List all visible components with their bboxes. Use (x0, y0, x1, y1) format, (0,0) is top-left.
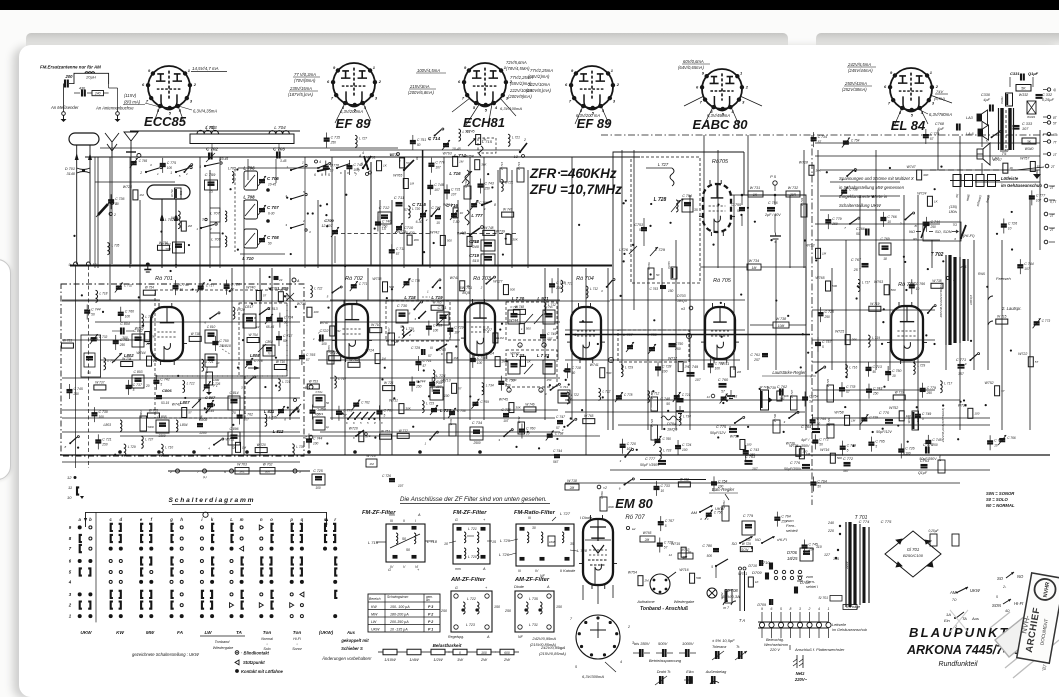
svg-text:6: 6 (884, 84, 887, 89)
svg-text:C 771: C 771 (359, 282, 368, 286)
svg-text:C 779: C 779 (930, 132, 939, 136)
svg-text:3: 3 (309, 230, 311, 234)
svg-text:C 777: C 777 (645, 457, 656, 461)
svg-text:250: 250 (546, 378, 552, 382)
svg-text:8I: 8I (914, 224, 917, 228)
svg-text:1M: 1M (851, 418, 856, 422)
svg-text:Rö 705: Rö 705 (713, 278, 732, 284)
svg-text:30R: 30R (790, 193, 797, 197)
svg-text:W 737: W 737 (95, 380, 104, 384)
svg-text:2200: 2200 (198, 431, 206, 435)
svg-text:L 737: L 737 (145, 437, 153, 441)
wire avc rail y301 (62, 300, 610, 302)
svg-text:C 760: C 760 (125, 310, 134, 314)
svg-text:6: 6 (314, 173, 316, 177)
svg-text:C 751: C 751 (417, 138, 426, 142)
svg-text:C 773: C 773 (343, 409, 352, 413)
svg-text:C 717: C 717 (283, 334, 293, 338)
resistor W765 (640, 536, 655, 542)
svg-text:180-200 µA: 180-200 µA (390, 613, 409, 617)
svg-text:500: 500 (501, 175, 506, 179)
svg-text:500: 500 (473, 239, 478, 243)
svg-text:C 721: C 721 (102, 437, 111, 441)
svg-text:7O: 7O (952, 223, 957, 227)
svg-text:W763: W763 (874, 280, 883, 284)
svg-text:100: 100 (662, 369, 668, 373)
switch group right SO-NO-1 (997, 572, 1024, 589)
svg-text:50: 50 (115, 202, 119, 206)
svg-text:Schwingstrom: Schwingstrom (387, 595, 408, 599)
svg-text:C 734: C 734 (472, 421, 482, 425)
svg-text:L 737: L 737 (623, 333, 633, 337)
IF can box L720 L721 (506, 302, 557, 340)
legend Blindkontakt (235, 651, 239, 655)
svg-text:W742: W742 (430, 230, 439, 234)
svg-text:W 719: W 719 (517, 162, 521, 171)
svg-text:6: 6 (69, 559, 72, 564)
svg-text:W715: W715 (297, 302, 306, 306)
svg-text:W725: W725 (835, 330, 844, 334)
svg-text:72V/5,6mA: 72V/5,6mA (506, 60, 527, 65)
svg-text:2: 2 (569, 397, 572, 401)
svg-text:2M: 2M (569, 486, 575, 490)
svg-text:Kontakt mit Lötfahne: Kontakt mit Lötfahne (241, 669, 284, 674)
switch row 6K55P8 (347, 418, 349, 420)
svg-text:3: 3 (613, 98, 616, 103)
generic component clusters (61, 128, 1050, 587)
svg-text:II Katode: II Katode (560, 569, 575, 573)
res W737 (791, 396, 798, 410)
svg-text:100: 100 (974, 411, 979, 415)
svg-text:1M: 1M (453, 356, 458, 360)
svg-text:2: 2 (193, 82, 197, 87)
if switch mid (418, 317, 420, 319)
svg-text:1: 1 (157, 172, 159, 176)
svg-text:C 780: C 780 (702, 544, 712, 548)
svg-text:5: 5 (575, 665, 577, 669)
Betriebsspannung caps (633, 641, 696, 663)
svg-text:3: 3 (799, 607, 801, 611)
svg-text:D703: D703 (677, 294, 686, 298)
svg-text:Wiedergabe: Wiedergabe (674, 600, 694, 604)
svg-text:107: 107 (436, 385, 442, 389)
switch row right (290, 169, 292, 171)
svg-text:W 734: W 734 (122, 357, 131, 361)
svg-text:100: 100 (715, 366, 721, 370)
svg-text:0: 0 (459, 651, 461, 655)
svg-text:(200V/8,)mA): (200V/8,)mA) (526, 88, 552, 93)
svg-text:W713: W713 (441, 378, 450, 382)
svg-text:C 745: C 745 (809, 543, 818, 547)
svg-text:C 731: C 731 (451, 187, 460, 191)
svg-text:SO, SON: SO, SON (935, 229, 952, 234)
svg-text:1: 1 (196, 227, 198, 231)
svg-text:600: 600 (504, 651, 510, 655)
svg-text:30K: 30K (852, 338, 858, 342)
osc W719 (517, 168, 524, 182)
svg-text:127: 127 (824, 553, 831, 557)
svg-text:+: + (483, 518, 486, 522)
top black bar (0, 0, 1059, 10)
svg-text:L 726: L 726 (499, 552, 510, 557)
svg-text:W713: W713 (805, 243, 814, 247)
svg-text:4: 4 (362, 151, 364, 155)
svg-text:W715: W715 (135, 327, 144, 331)
wire long bus y268 (70, 265, 612, 267)
svg-text:8: 8 (353, 436, 355, 440)
svg-text:107: 107 (1024, 267, 1030, 271)
svg-text:30K: 30K (414, 238, 420, 242)
svg-text:Ton: Ton (263, 630, 272, 635)
svg-text:500: 500 (707, 554, 713, 558)
svg-text:C 740: C 740 (382, 219, 391, 223)
svg-text:250: 250 (780, 520, 787, 524)
svg-text:C 736: C 736 (115, 197, 124, 201)
svg-text:L 708: L 708 (243, 195, 255, 200)
resistor W725 (671, 267, 677, 279)
svg-text:57: 57 (263, 293, 267, 297)
D701 feeder (161, 199, 163, 220)
svg-text:W721: W721 (449, 418, 453, 425)
svg-text:(64V/0,65mA): (64V/0,65mA) (678, 65, 704, 70)
svg-text:C 732: C 732 (124, 284, 133, 288)
svg-text:500: 500 (891, 288, 896, 292)
svg-text:C 770: C 770 (879, 411, 890, 415)
svg-text:W765: W765 (393, 174, 402, 178)
svg-text:6,3V/200mA: 6,3V/200mA (340, 109, 363, 114)
svg-text:b: b (89, 517, 92, 522)
svg-text:o: o (398, 335, 400, 339)
svg-text:Schieber S: Schieber S (341, 646, 363, 651)
svg-text:C 766: C 766 (916, 282, 925, 286)
res W707 2K (388, 333, 395, 345)
svg-text:C 774: C 774 (859, 519, 870, 524)
res W710 boxed (366, 459, 377, 467)
svg-text:r: r (334, 517, 336, 522)
svg-text:W 754: W 754 (145, 286, 154, 290)
res W745 (827, 385, 834, 402)
svg-text:C 762: C 762 (244, 413, 253, 417)
svg-text:107: 107 (434, 188, 440, 192)
svg-text:5: 5 (847, 449, 849, 453)
tube EF89(2) socket view (565, 66, 620, 115)
svg-text:C 744: C 744 (553, 449, 562, 453)
svg-text:sehtei l: sehtei l (806, 585, 818, 589)
svg-text:W 719: W 719 (895, 390, 904, 394)
svg-text:250: 250 (381, 224, 388, 228)
svg-text:IV: IV (535, 569, 539, 573)
svg-text:2500: 2500 (472, 441, 480, 445)
svg-text:LW: LW (204, 630, 212, 635)
FM-Ratio-Filter box (514, 510, 574, 566)
svg-text:220: 220 (827, 529, 834, 533)
svg-text:1: 1 (740, 70, 743, 75)
svg-text:250: 250 (749, 453, 756, 457)
svg-text:C 708: C 708 (267, 235, 279, 240)
if switch o21 (403, 335, 405, 337)
svg-text:L 716: L 716 (849, 366, 857, 370)
caps on tube pin7 (205, 330, 217, 343)
svg-text:C 718: C 718 (254, 359, 263, 363)
svg-text:L 731: L 731 (529, 623, 538, 627)
svg-text:6: 6 (696, 84, 699, 89)
switch HI-FI mid (761, 542, 763, 544)
svg-text:2W: 2W (480, 657, 488, 662)
svg-text:Normal: Normal (261, 637, 273, 641)
discriminator ground (770, 235, 781, 237)
svg-text:(8/3 mA): (8/3 mA) (124, 100, 141, 105)
FM-ZF-Filter 2 innards (444, 518, 496, 571)
svg-text:2M: 2M (736, 370, 742, 374)
svg-text:C 765: C 765 (139, 159, 148, 163)
svg-text:5: 5 (133, 388, 135, 392)
resistor W761 (722, 506, 729, 521)
svg-text:C731: C731 (437, 306, 446, 310)
svg-text:250: 250 (101, 442, 108, 446)
terminal 6 (230, 469, 234, 473)
svg-text:57: 57 (404, 208, 408, 212)
svg-text:4: 4 (818, 607, 820, 611)
svg-text:q: q (301, 517, 304, 522)
svg-text:L 719: L 719 (368, 540, 379, 545)
svg-text:C 724: C 724 (682, 443, 691, 447)
antenna UKW symbol (124, 132, 138, 156)
svg-text:1: 1 (188, 68, 191, 73)
svg-text:1T: 1T (1053, 153, 1058, 157)
svg-text:C 711: C 711 (394, 195, 404, 200)
diode D706 (800, 548, 813, 561)
svg-text:5: 5 (327, 295, 329, 299)
svg-text:C 750: C 750 (219, 339, 228, 343)
svg-text:Rundfunkteil: Rundfunkteil (939, 661, 978, 668)
IF can box L722 L723 (506, 350, 557, 387)
svg-text:Fernseh: Fernseh (996, 276, 1011, 281)
svg-text:A: A (519, 510, 523, 514)
L722 innards (508, 360, 520, 374)
svg-text:357: 357 (958, 372, 964, 376)
svg-text:L 727: L 727 (359, 136, 367, 140)
svg-text:50: 50 (180, 288, 184, 292)
svg-text:×2: ×2 (603, 486, 607, 490)
svg-text:7: 7 (462, 95, 465, 100)
svg-text:C 769: C 769 (480, 400, 489, 404)
svg-text:W801: W801 (139, 410, 143, 418)
svg-text:C709: C709 (324, 218, 334, 223)
svg-text:BLAUPUNKT: BLAUPUNKT (909, 625, 1010, 640)
svg-text:W 733: W 733 (800, 198, 804, 207)
svg-text:160K: 160K (549, 540, 556, 544)
svg-text:W 703: W 703 (237, 463, 247, 467)
svg-text:L 729: L 729 (500, 538, 511, 543)
svg-text:50µF V350V: 50µF V350V (640, 463, 660, 467)
svg-text:4: 4 (494, 105, 498, 110)
ground blob bus (146, 263, 150, 267)
svg-text:200R: 200R (650, 407, 657, 410)
svg-text:242V/5,5mA: 242V/5,5mA (847, 62, 871, 67)
cap C896 boxed (228, 432, 240, 445)
osc heavy vertical (422, 150, 424, 265)
svg-text:4: 4 (68, 579, 72, 584)
svg-text:20µH: 20µH (85, 75, 96, 80)
svg-text:9: 9 (571, 68, 574, 73)
svg-text:Belastbarkeit: Belastbarkeit (433, 643, 462, 648)
L720 innards (508, 310, 520, 324)
svg-text:50: 50 (656, 273, 660, 277)
svg-text:10: 10 (444, 542, 448, 546)
svg-text:10: 10 (994, 443, 998, 447)
svg-text:W 754: W 754 (248, 333, 257, 337)
svg-text:L 729: L 729 (128, 445, 136, 449)
svg-text:III: III (528, 516, 531, 520)
svg-text:25T: 25T (753, 358, 761, 362)
svg-text:Änderungen vorbehalten!: Änderungen vorbehalten! (321, 656, 372, 661)
svg-text:L 717: L 717 (944, 382, 952, 386)
svg-text:6-30: 6-30 (416, 220, 423, 224)
svg-text:W741: W741 (720, 362, 729, 366)
svg-text:+: + (417, 568, 420, 572)
svg-text:2. Lautspr.: 2. Lautspr. (1001, 306, 1022, 311)
svg-text:1M: 1M (822, 251, 827, 255)
svg-text:W711: W711 (389, 399, 398, 403)
svg-text:300K: 300K (608, 505, 614, 509)
svg-text:C 774: C 774 (994, 438, 1003, 442)
svg-text:gezeichnete Schalterstellung: gezeichnete Schalterstellung : UKW (132, 652, 200, 657)
svg-text:A: A (417, 513, 421, 517)
svg-text:100: 100 (906, 414, 911, 418)
svg-text:Betriebsspannung: Betriebsspannung (649, 658, 682, 663)
svg-text:6: 6 (142, 82, 145, 87)
AM loop antenna (69, 133, 99, 145)
svg-text:1M: 1M (482, 138, 487, 142)
svg-text:9: 9 (333, 65, 336, 70)
svg-text:L 728: L 728 (654, 197, 667, 203)
svg-text:C 764: C 764 (781, 515, 790, 519)
svg-text:5K: 5K (1021, 87, 1026, 91)
svg-text:6: 6 (204, 321, 206, 325)
coil L709 varcap C708 (244, 229, 258, 248)
svg-text:W 753: W 753 (309, 379, 318, 383)
svg-text:C 743: C 743 (750, 448, 759, 452)
svg-text:4µF: 4µF (937, 127, 944, 131)
svg-text:107: 107 (435, 166, 441, 170)
svg-text:+: + (485, 586, 488, 590)
svg-text:L 728: L 728 (577, 548, 588, 553)
svg-text:W 738: W 738 (932, 279, 941, 283)
svg-text:i: i (201, 517, 203, 522)
band labels row (80, 630, 333, 635)
svg-text:SO: SO (732, 542, 738, 546)
svg-text:30K: 30K (265, 470, 271, 474)
svg-text:2M: 2M (643, 579, 649, 583)
svg-text:W739: W739 (767, 386, 776, 390)
svg-text:C 803: C 803 (133, 370, 142, 374)
svg-text:7: 7 (700, 100, 703, 105)
svg-text:1: 1 (313, 337, 315, 341)
svg-text:mm: mm (389, 513, 395, 517)
svg-text:L 729: L 729 (145, 315, 153, 319)
svg-text:Rö 702: Rö 702 (345, 276, 363, 282)
cap C805 boxed (156, 420, 169, 433)
svg-text:5: 5 (875, 445, 877, 449)
svg-text:W741: W741 (590, 363, 599, 367)
svg-text:500: 500 (447, 238, 452, 242)
res W722 (651, 425, 658, 440)
svg-text:2M: 2M (684, 365, 690, 369)
svg-text:1O: 1O (514, 155, 519, 159)
svg-text:107: 107 (752, 467, 758, 471)
dipole antenna (147, 185, 190, 199)
dashed box L737 L730 (618, 330, 689, 362)
svg-text:L 710: L 710 (165, 445, 173, 449)
svg-text:2: 2 (301, 161, 304, 165)
switch sw5-4 (204, 165, 206, 167)
svg-text:C 717: C 717 (206, 283, 215, 287)
svg-text:1K: 1K (934, 199, 939, 203)
resistor W703 (235, 468, 249, 475)
svg-text:C 726: C 726 (1008, 221, 1017, 225)
svg-text:1: 1 (427, 289, 429, 293)
switch em80 5 (715, 565, 717, 567)
svg-text:0,7T: 0,7T (1050, 200, 1057, 204)
svg-text:3: 3 (900, 221, 902, 225)
svg-text:g: g (169, 517, 173, 522)
svg-text:E/M: E/M (828, 435, 833, 438)
svg-text:10M: 10M (778, 324, 785, 328)
svg-text:FA: FA (177, 630, 184, 635)
tube Roe706 pentode (887, 302, 927, 364)
svg-text:Rö 704: Rö 704 (576, 276, 594, 282)
svg-text:W 736: W 736 (773, 414, 777, 423)
FM-ZF-Filter box 2 (453, 510, 490, 564)
osc switch 1O (469, 234, 471, 236)
svg-text:10: 10 (817, 422, 821, 426)
svg-text:L 712: L 712 (590, 287, 598, 291)
svg-text:6: 6 (954, 237, 956, 241)
svg-text:Sonor: Sonor (292, 647, 302, 651)
svg-text:50: 50 (819, 442, 823, 446)
svg-text:L 723: L 723 (426, 402, 434, 406)
svg-text:L 723: L 723 (466, 623, 475, 627)
svg-text:1: 1 (611, 68, 614, 73)
front-end verticals (94, 157, 96, 268)
svg-text:C 750: C 750 (892, 369, 901, 373)
osc dashed box (155, 376, 245, 418)
svg-text:C768: C768 (935, 122, 945, 126)
svg-text:C 725: C 725 (313, 469, 323, 473)
resistor W-right cluster (929, 529, 960, 546)
stamp watermark cross (995, 616, 1039, 657)
svg-text:50: 50 (466, 191, 470, 195)
svg-text:5: 5 (711, 565, 713, 569)
svg-text:30: 30 (532, 526, 536, 530)
ground arrow mid (254, 366, 260, 370)
wire rail y480 (640, 479, 706, 481)
svg-text:1: 1 (930, 70, 933, 75)
svg-text:CX0: CX0 (450, 431, 455, 434)
svg-text:50: 50 (666, 402, 670, 406)
svg-text:NO: NO (755, 538, 761, 542)
svg-text:3: 3 (190, 98, 193, 103)
svg-text:5: 5 (69, 570, 72, 575)
svg-text:107: 107 (547, 337, 553, 341)
svg-text:C 775: C 775 (167, 161, 176, 165)
terminal x2 (597, 485, 601, 489)
svg-text:(UKW): (UKW) (319, 630, 334, 635)
transformer T702 (931, 252, 968, 345)
svg-text:C 711: C 711 (422, 359, 431, 363)
svg-text:57: 57 (458, 386, 462, 390)
switch group right AM-UKW (949, 587, 981, 602)
